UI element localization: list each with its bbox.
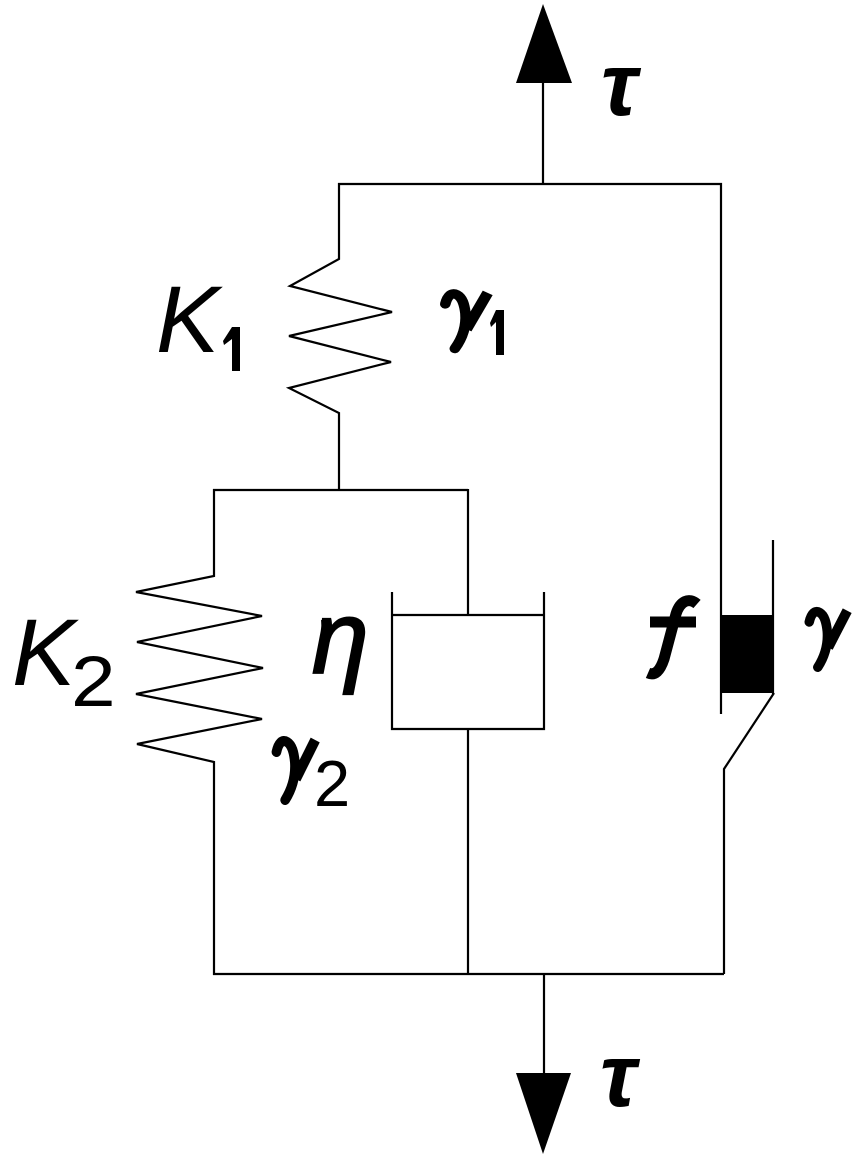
spring K2 branch [136,489,263,975]
label K1 [156,267,240,373]
bottom stress arrow tau [516,974,571,1154]
friction block f [722,615,774,693]
spring K1 [289,183,392,491]
label f [648,601,697,674]
top stress arrow tau [516,4,572,185]
svg-text:2: 2 [71,642,116,722]
svg-text:2: 2 [314,747,350,820]
dashpot cup [392,592,544,729]
svg-text:η: η [312,581,369,695]
wire bottom rail [213,973,724,975]
svg-text:K: K [156,267,223,373]
friction wire diagonal and lower [724,693,774,974]
svg-text:K: K [12,600,79,706]
friction slider right plate [772,540,774,694]
dashpot rod lower [467,729,469,975]
dashpot piston [392,614,544,616]
label gamma1 [445,293,504,355]
dashpot rod upper [467,489,469,615]
label gamma right [809,611,847,668]
wire inner box top rail [213,489,468,491]
label K2 [12,600,116,722]
svg-text:τ: τ [600,1025,641,1125]
wire top rail and right branch upper [338,184,721,714]
label gamma2 [276,740,350,820]
svg-text:τ: τ [601,34,642,134]
